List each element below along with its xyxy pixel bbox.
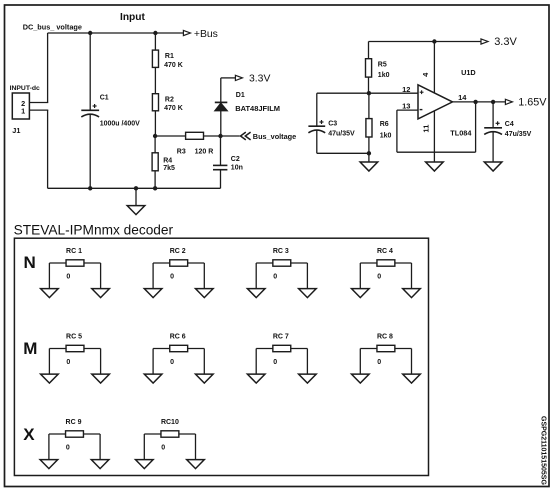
wire left leg <box>359 263 361 289</box>
svg-text:1.65V: 1.65V <box>518 97 547 109</box>
resistor RC 3 <box>256 248 307 281</box>
svg-text:X: X <box>23 425 35 444</box>
ground <box>92 289 110 298</box>
svg-text:+Bus: +Bus <box>194 29 218 40</box>
svg-text:R3: R3 <box>177 148 186 155</box>
resistor R5 <box>368 42 370 59</box>
svg-text:0: 0 <box>161 445 165 452</box>
power 3.3V (op-amp) <box>481 39 488 44</box>
wire right leg <box>306 263 308 289</box>
svg-text:R1: R1 <box>165 53 174 60</box>
wire right leg <box>411 263 413 289</box>
svg-text:R4: R4 <box>163 157 172 164</box>
svg-text:0: 0 <box>66 359 70 366</box>
capacitor C3 <box>316 93 318 126</box>
wire feedback pin 13 <box>397 109 418 111</box>
junction feedback tap <box>473 100 477 104</box>
wire op-amp output <box>453 101 506 103</box>
resistor RC 7 <box>256 333 307 366</box>
resistor RC10 <box>144 419 195 452</box>
wire R1 to R2 <box>154 67 156 93</box>
svg-text:47u/35V: 47u/35V <box>505 131 532 138</box>
ground <box>352 374 370 383</box>
svg-text:0: 0 <box>170 359 174 366</box>
ground <box>40 460 58 469</box>
resistor RC 2 <box>153 248 204 281</box>
resistor R2 <box>152 94 158 111</box>
svg-text:12: 12 <box>402 85 410 94</box>
junction ground stem <box>134 186 138 190</box>
resistor RC 8 <box>360 333 411 366</box>
wire left leg <box>359 349 361 375</box>
ground <box>187 460 205 469</box>
svg-text:STEVAL-IPMnmx decoder: STEVAL-IPMnmx decoder <box>14 223 174 238</box>
ground <box>196 289 214 298</box>
svg-text:RC 1: RC 1 <box>66 248 82 255</box>
wire left leg <box>255 349 257 375</box>
svg-text:RC 4: RC 4 <box>377 248 393 255</box>
svg-text:INPUT-dc: INPUT-dc <box>10 85 40 92</box>
pin 4 (V+) <box>433 42 435 93</box>
svg-text:RC 2: RC 2 <box>170 248 186 255</box>
svg-text:RC10: RC10 <box>161 419 179 426</box>
node Bus_voltage <box>241 132 251 140</box>
ground <box>484 162 502 171</box>
junction R4 bottom <box>153 186 157 190</box>
svg-text:Input: Input <box>120 12 145 23</box>
pin 11 (V-) <box>433 111 435 163</box>
capacitor C4 <box>492 102 494 128</box>
svg-text:RC 8: RC 8 <box>377 333 393 340</box>
ground <box>352 289 370 298</box>
svg-text:RC 5: RC 5 <box>66 333 82 340</box>
ground <box>41 374 59 383</box>
junction C1 top <box>88 31 92 35</box>
wire left leg <box>143 434 145 460</box>
power 1.65V output <box>505 99 512 104</box>
wire right leg <box>100 349 102 375</box>
svg-text:1k0: 1k0 <box>380 132 392 139</box>
diode D1 BAT48JFILM <box>220 78 222 103</box>
junction D1 / C2 node <box>218 134 222 138</box>
svg-text:1: 1 <box>21 106 25 115</box>
power 3.3V (diode clamp) <box>221 77 236 79</box>
ground <box>299 289 317 298</box>
svg-text:0: 0 <box>66 445 70 452</box>
ground <box>144 289 162 298</box>
power +Bus <box>183 30 190 35</box>
ground <box>403 289 421 298</box>
resistor RC 1 <box>49 248 100 281</box>
svg-text:14: 14 <box>458 93 467 102</box>
resistor R1 <box>154 33 156 50</box>
resistor R3 <box>155 135 186 137</box>
ground <box>247 289 265 298</box>
ground <box>426 162 444 171</box>
op-amp U1D TL084 <box>418 85 453 119</box>
svg-text:47u/35V: 47u/35V <box>328 130 355 137</box>
svg-text:TL084: TL084 <box>450 128 472 137</box>
ground <box>136 460 154 469</box>
wire divider to op-amp +in (pin 12) <box>317 92 418 94</box>
ground <box>92 374 110 383</box>
wire R2 to junction <box>154 111 156 136</box>
wire right leg <box>203 263 205 289</box>
wire right leg <box>195 434 197 460</box>
svg-text:RC 6: RC 6 <box>170 333 186 340</box>
wire left leg <box>48 434 50 460</box>
svg-text:BAT48JFILM: BAT48JFILM <box>235 104 280 113</box>
wire right leg <box>203 349 205 375</box>
ground <box>247 374 265 383</box>
connector J1 <box>12 93 29 119</box>
resistor R6 <box>368 93 370 118</box>
ground <box>135 188 137 205</box>
svg-text:D1: D1 <box>236 92 245 99</box>
svg-text:0: 0 <box>273 359 277 366</box>
ground <box>299 374 317 383</box>
svg-text:Bus_voltage: Bus_voltage <box>253 132 296 141</box>
svg-text:0: 0 <box>66 274 70 281</box>
svg-text:120 R: 120 R <box>195 148 214 155</box>
ground <box>403 374 421 383</box>
junction C3/R6 ground node <box>367 151 371 155</box>
svg-text:1k0: 1k0 <box>378 72 390 79</box>
svg-text:J1: J1 <box>12 126 20 135</box>
svg-text:3.3V: 3.3V <box>249 73 270 84</box>
resistor RC 4 <box>360 248 411 281</box>
wire left leg <box>152 263 154 289</box>
svg-text:M: M <box>23 339 37 358</box>
ground <box>41 289 59 298</box>
junction op-amp supply <box>432 39 436 43</box>
wire J1 pin 1 down to ground rail <box>29 109 48 111</box>
svg-text:R2: R2 <box>165 97 174 104</box>
wire left leg <box>152 349 154 375</box>
STEVAL-IPMnmx decoder box <box>14 238 428 475</box>
junction divider node <box>153 134 157 138</box>
wire bottom ground rail <box>48 187 221 189</box>
svg-text:RC 3: RC 3 <box>273 248 289 255</box>
svg-text:1000u /400V: 1000u /400V <box>100 121 140 128</box>
ground <box>91 460 109 469</box>
svg-text:N: N <box>24 253 36 272</box>
ground <box>196 374 214 383</box>
svg-text:3.3V: 3.3V <box>494 36 517 48</box>
wire top rail <box>48 32 184 34</box>
wire left leg <box>48 263 50 289</box>
svg-text:0: 0 <box>377 359 381 366</box>
junction R5/R6 divider <box>367 91 371 95</box>
svg-text:RC 7: RC 7 <box>273 333 289 340</box>
svg-text:C2: C2 <box>231 156 240 163</box>
wire right leg <box>100 263 102 289</box>
svg-text:0: 0 <box>273 274 277 281</box>
junction R1 top <box>153 31 157 35</box>
junction C4 tap <box>491 100 495 104</box>
svg-text:7k5: 7k5 <box>163 165 175 172</box>
svg-text:10n: 10n <box>231 165 243 172</box>
svg-text:C1: C1 <box>100 94 109 101</box>
svg-text:C4: C4 <box>505 121 514 128</box>
resistor RC 6 <box>153 333 204 366</box>
svg-text:C3: C3 <box>328 121 337 128</box>
resistor R4 <box>154 136 156 153</box>
wire right leg <box>99 434 101 460</box>
svg-text:DC_bus_ voltage: DC_bus_ voltage <box>23 22 82 31</box>
svg-text:0: 0 <box>377 274 381 281</box>
capacitor C1 <box>89 33 91 110</box>
svg-text:R6: R6 <box>380 121 389 128</box>
svg-text:470 K: 470 K <box>164 105 183 112</box>
resistor RC 9 <box>49 419 100 452</box>
ground <box>144 374 162 383</box>
wire left leg <box>255 263 257 289</box>
svg-text:11: 11 <box>422 125 431 133</box>
svg-text:470 K: 470 K <box>164 62 183 69</box>
wire left leg <box>48 349 50 375</box>
svg-text:GSPG2110151505SG: GSPG2110151505SG <box>540 416 547 485</box>
wire right leg <box>306 349 308 375</box>
wire 3.3V rail <box>369 41 481 43</box>
svg-text:RC 9: RC 9 <box>66 419 82 426</box>
ground <box>368 153 370 162</box>
capacitor C2 <box>220 136 222 165</box>
svg-text:U1D: U1D <box>461 68 476 77</box>
svg-text:0: 0 <box>170 274 174 281</box>
svg-text:13: 13 <box>402 102 410 111</box>
junction C1 bottom <box>88 186 92 190</box>
svg-text:R5: R5 <box>378 61 387 68</box>
wire right leg <box>411 349 413 375</box>
wire left drop to J1 pin 2 <box>47 33 49 103</box>
resistor RC 5 <box>49 333 100 366</box>
